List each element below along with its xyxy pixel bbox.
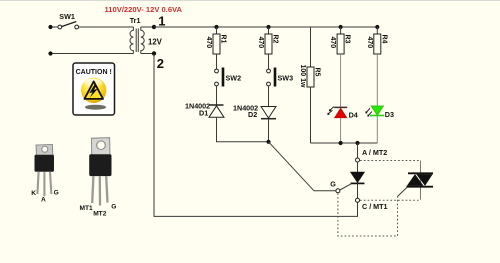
- svg-text:1: 1: [158, 14, 165, 29]
- wire R5 top: [310, 27, 312, 67]
- transformer Tr1: [130, 16, 163, 54]
- LED D3 green: [366, 106, 394, 119]
- wire R1 to SW2: [216, 54, 218, 69]
- wire R5 bottom: [310, 87, 312, 143]
- wire SW1 to transformer: [78, 26, 133, 28]
- node 1: [152, 14, 166, 30]
- wire A to SCR: [357, 163, 359, 173]
- wire A branch down: [357, 143, 359, 158]
- node primary bottom terminal: [48, 51, 52, 55]
- diode D2 1N4002: [233, 104, 276, 120]
- wire top bus: [154, 26, 377, 28]
- switch SW3: [267, 68, 293, 87]
- wire R3 top: [340, 27, 342, 34]
- svg-text:Tr1: Tr1: [130, 16, 141, 25]
- resistor R4 470: [366, 34, 388, 54]
- wire SW2 to D1: [216, 86, 218, 105]
- svg-text:CAUTION !: CAUTION !: [76, 69, 112, 76]
- resistor R1 470: [205, 34, 227, 54]
- svg-text:A / MT2: A / MT2: [362, 148, 387, 157]
- svg-text:470: 470: [329, 37, 336, 49]
- svg-text:G: G: [330, 179, 336, 188]
- svg-text:R2: R2: [272, 35, 279, 44]
- node A / MT2 terminal: [356, 148, 388, 162]
- package drawing triac TO-220: [80, 138, 117, 218]
- svg-text:SW2: SW2: [226, 74, 242, 83]
- wire dashed C to triac MT1: [360, 199, 419, 201]
- svg-text:110V/220V- 12V 0.6VA: 110V/220V- 12V 0.6VA: [105, 5, 183, 14]
- svg-text:R5: R5: [314, 68, 321, 77]
- node rail A branch: [355, 141, 359, 145]
- svg-text:D1: D1: [199, 109, 208, 118]
- svg-text:MT1: MT1: [80, 205, 94, 212]
- node 2: [152, 51, 164, 71]
- wire primary bottom: [51, 53, 134, 55]
- svg-text:R3: R3: [344, 35, 351, 44]
- resistor R2 470: [257, 34, 279, 54]
- thyristor SCR: [351, 172, 365, 183]
- package drawing SCR TO-220: [31, 145, 58, 204]
- wire D2 down to junction: [268, 119, 270, 142]
- node junction R1 top: [214, 25, 218, 29]
- wire D3 down: [376, 116, 378, 143]
- switch SW2: [215, 68, 241, 87]
- svg-text:A: A: [41, 196, 46, 203]
- wire D1 down to rail: [217, 117, 269, 142]
- svg-text:SW1: SW1: [59, 12, 75, 21]
- node junction R2 top: [266, 25, 270, 29]
- wire secondary top to node 1: [141, 26, 154, 28]
- svg-text:G: G: [54, 189, 59, 196]
- svg-text:MT2: MT2: [93, 210, 107, 217]
- wire gate to SCR: [340, 184, 352, 190]
- wire D4 down: [340, 118, 342, 143]
- wire dashed G to triac gate: [338, 193, 398, 236]
- svg-text:470: 470: [257, 37, 264, 49]
- triac symbol: [398, 161, 434, 200]
- wire node 2 down and across to C/MT1: [154, 54, 358, 217]
- wire R2 to SW3: [268, 54, 270, 69]
- svg-text:SW3: SW3: [278, 74, 294, 83]
- wire primary top: [51, 26, 58, 28]
- wire junction to gate G: [269, 142, 336, 191]
- wire R4 to D3: [376, 54, 378, 106]
- wire secondary bottom to node 2: [141, 53, 154, 55]
- svg-text:D4: D4: [349, 111, 358, 120]
- wire LED bottom rail: [311, 142, 378, 144]
- wire R3 to D4: [340, 54, 342, 107]
- LED D4 red: [328, 107, 358, 120]
- resistor R5 100 1w: [299, 65, 321, 89]
- node junction R4 top: [375, 25, 379, 29]
- svg-text:470: 470: [205, 37, 212, 49]
- wire R4 top: [376, 27, 378, 34]
- wire SCR to C terminal: [357, 183, 359, 198]
- switch SW1: [58, 12, 79, 29]
- node gate G terminal: [330, 179, 340, 192]
- diode D1 1N4002: [185, 102, 224, 118]
- wire SW3 to D2: [268, 86, 270, 106]
- wire R2 top: [268, 27, 270, 34]
- svg-text:100 1w: 100 1w: [299, 65, 306, 89]
- top border line: [0, 0, 500, 1]
- svg-text:R1: R1: [220, 35, 227, 44]
- resistor R3 470: [329, 34, 351, 54]
- caution sign: [73, 63, 115, 115]
- svg-text:C / MT1: C / MT1: [362, 202, 388, 211]
- node rail R3: [339, 141, 343, 145]
- title label 110V/220V- 12V 0.6VA: [105, 5, 183, 14]
- svg-text:D3: D3: [385, 110, 394, 119]
- svg-text:R4: R4: [380, 35, 387, 44]
- svg-text:K: K: [31, 190, 36, 197]
- svg-text:D2: D2: [248, 110, 257, 119]
- wire R1 top: [216, 27, 218, 34]
- node junction R3 top: [339, 25, 343, 29]
- svg-text:470: 470: [366, 37, 373, 49]
- svg-text:G: G: [111, 203, 116, 210]
- svg-text:12V: 12V: [148, 38, 163, 47]
- node C / MT1 terminal: [356, 198, 388, 211]
- wire dashed A to triac MT2: [360, 160, 421, 162]
- node primary top terminal: [48, 25, 52, 29]
- node D1 D2 junction: [266, 140, 270, 144]
- svg-text:2: 2: [157, 56, 164, 71]
